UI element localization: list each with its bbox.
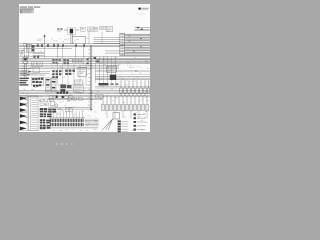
antenna mast symbol	[37, 35, 46, 45]
terminal group T1	[52, 59, 60, 64]
harness tree W6	[20, 127, 27, 131]
relay pair boxes low right	[96, 95, 104, 98]
footer page indicator	[56, 143, 58, 145]
wire label texture top band	[20, 38, 117, 57]
lamp item row L3	[134, 121, 146, 123]
connector grid G1	[52, 70, 61, 78]
strip bus wire	[50, 127, 98, 129]
main vertical trunk	[90, 45, 92, 111]
block seams	[40, 108, 56, 129]
bottom right connector row	[102, 104, 149, 110]
right hatch feeders	[85, 119, 99, 127]
wires low mid	[48, 108, 91, 110]
fuse pair F1	[57, 28, 62, 32]
wire label texture mid band	[19, 57, 149, 94]
terminal row low center	[57, 92, 69, 94]
harness tree W2	[20, 103, 28, 107]
strip footer marks	[60, 129, 97, 131]
connector CN-A column	[120, 33, 125, 45]
harness tree frame lower	[19, 113, 27, 131]
connector pair CN-C	[20, 50, 25, 55]
junction block J1	[32, 77, 44, 87]
harness tree frame upper	[19, 95, 27, 111]
right connector drops	[120, 80, 150, 96]
lamp item row L4	[134, 125, 146, 127]
page sheet	[19, 4, 150, 132]
terminal strip row1	[50, 119, 83, 122]
comb feeder wires	[49, 111, 85, 119]
label rows left	[19, 78, 29, 86]
wires mid2	[19, 57, 150, 69]
monitor box M1	[75, 80, 83, 85]
junction block J2	[46, 78, 56, 91]
logo mark top right	[137, 7, 149, 14]
distribution cluster D2	[40, 119, 51, 129]
feeder wires into connector	[94, 38, 120, 54]
vertical feeders top band	[25, 47, 84, 58]
relay row boxes RB	[40, 99, 53, 106]
parts list box	[29, 96, 38, 131]
harness bundle to right edge	[125, 34, 150, 56]
harness tree W5	[20, 121, 28, 125]
control unit box U1	[78, 68, 86, 76]
wire taps under bus	[24, 43, 85, 46]
lamp item row L1	[134, 113, 146, 115]
cluster C5	[60, 84, 83, 92]
ECU box right	[107, 66, 116, 80]
terminal group T2	[63, 59, 69, 64]
title ELECTRICAL CIRCUIT DIAGRAM	[20, 6, 41, 7]
component cluster node K1	[100, 26, 113, 32]
bus wires mid3	[19, 91, 150, 97]
tick row T3	[73, 59, 84, 63]
vertical feeders mid right	[96, 57, 116, 83]
wires right mid	[95, 77, 150, 80]
harness tree W3	[20, 108, 27, 112]
connector grid G2	[65, 70, 75, 75]
main bus wires upper	[19, 44, 120, 48]
switch boxes S2 S3	[32, 62, 42, 73]
long bus wires mid1	[19, 58, 150, 63]
diagonal harness fan	[102, 119, 113, 131]
fuse list column	[118, 120, 129, 132]
lamp item row L5	[134, 129, 146, 131]
battery wires	[48, 98, 102, 100]
stub drops below connector row	[107, 111, 147, 118]
terminal strip row2	[50, 123, 83, 126]
bottom right drop wires	[103, 96, 147, 105]
trunk tick marks	[89, 49, 90, 106]
fuse holder box	[113, 113, 120, 119]
fusible link wires top right	[135, 27, 151, 31]
junction bits right of trunk	[87, 57, 99, 64]
relay K3 left	[19, 55, 31, 77]
small cluster left mid	[20, 71, 31, 76]
battery group	[49, 95, 72, 107]
dark bar relay row	[99, 83, 119, 85]
connector CN-B column	[120, 46, 125, 56]
wires mid2b	[19, 72, 50, 75]
drop wire from switch	[71, 34, 85, 44]
wires right mid2	[95, 70, 150, 88]
distribution cluster D1	[40, 108, 56, 117]
legend table	[20, 8, 34, 13]
ignition switch S1	[64, 28, 79, 34]
relay box K2	[81, 27, 103, 44]
wires center low	[58, 85, 90, 88]
harness tree W4	[20, 114, 28, 118]
sub box low mid	[58, 107, 73, 111]
harness tree W1	[20, 97, 28, 101]
lamp item row L2	[134, 117, 146, 119]
left bus stubs	[33, 52, 45, 58]
mid vertical drops	[58, 64, 87, 84]
relay boxes low center	[68, 98, 82, 101]
wire label texture bottom band	[39, 96, 149, 131]
fuse block left	[26, 44, 34, 52]
